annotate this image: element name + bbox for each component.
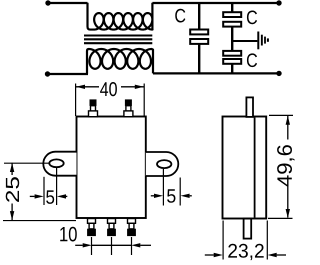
terminal pin top 2 bbox=[124, 99, 133, 116]
node line2 input terminal dot bbox=[45, 71, 50, 76]
dimension 25 line and arrows bbox=[11, 163, 13, 175]
dimension 5 left arrows bbox=[30, 195, 35, 197]
dimension 49,6 line and arrows bbox=[287, 116, 289, 140]
wire Y-capacitor top lead bbox=[231, 3, 233, 13]
wire earth lead from Y-cap midpoint bbox=[232, 40, 257, 42]
dimension 5 left extension lines bbox=[43, 177, 45, 205]
filter body outline (top view) bbox=[77, 117, 146, 219]
dimension 10 line and arrows bbox=[75, 244, 83, 246]
node line1 input terminal dot bbox=[45, 0, 50, 5]
terminal pin bottom 1 bbox=[87, 219, 96, 237]
node line2 output terminal dot bbox=[276, 71, 281, 76]
terminal pin top 1 bbox=[89, 99, 98, 116]
dimension label 25 (rotated) bbox=[6, 177, 20, 202]
dimension 10 extension lines at pins bbox=[91, 237, 93, 255]
dimension label 10 bbox=[60, 227, 77, 242]
wire between Y-capacitors bbox=[231, 27, 233, 52]
dimension label 40 bbox=[100, 82, 117, 96]
dimension 5 right extension lines bbox=[162, 169, 164, 206]
left mounting tab bbox=[43, 152, 76, 176]
terminal pin bottom 2 bbox=[107, 219, 116, 237]
ground chassis earth symbol bbox=[257, 32, 269, 50]
terminal pin bottom (side view) bbox=[244, 219, 252, 239]
wire X-capacitor bottom lead bbox=[198, 44, 200, 74]
wire line1 output bbox=[152, 2, 279, 4]
dimension 25 body bottom extension bbox=[3, 220, 76, 222]
capacitor C (X-cap across lines) bbox=[190, 30, 208, 44]
wire line2 input bbox=[48, 73, 89, 75]
label C of top Y-capacitor bbox=[247, 11, 257, 25]
filter body outline (side view) bbox=[223, 117, 267, 219]
wire line1 input bbox=[48, 2, 88, 4]
node line1 output terminal dot bbox=[276, 0, 281, 5]
dimension 49,6 extension lines bbox=[269, 114, 293, 116]
right mounting tab bbox=[146, 152, 179, 176]
dimension label 5 left bbox=[46, 190, 54, 204]
capacitor C (Y-cap line1 to earth) bbox=[223, 12, 241, 26]
capacitor C (Y-cap line2 to earth) bbox=[223, 51, 241, 64]
core of common-mode choke (3 lines) bbox=[84, 36, 152, 44]
wire bottom Y-capacitor lead bbox=[231, 64, 233, 74]
inductor L1 bottom winding of common-mode choke bbox=[87, 49, 153, 74]
right mounting hole (oval) bbox=[157, 160, 171, 168]
dimension 25 hole centerline extension bbox=[4, 162, 50, 164]
label C of bottom Y-capacitor bbox=[247, 53, 257, 67]
dimension 40 extension lines bbox=[75, 84, 77, 117]
dimension 40 line and arrows bbox=[76, 86, 99, 88]
label C of X-capacitor bbox=[175, 9, 185, 23]
dimension 5 right arrows bbox=[151, 195, 154, 197]
dimension label 5 right bbox=[167, 189, 175, 203]
terminal pin top (side view) bbox=[246, 97, 253, 117]
mounting flange line (side view) bbox=[254, 118, 256, 218]
terminal pin bottom 3 bbox=[127, 219, 136, 237]
left mounting hole (oval) bbox=[49, 159, 63, 167]
wire line2 output bbox=[153, 72, 279, 74]
wire X-capacitor top lead bbox=[198, 3, 200, 30]
dimension label 23,2 bbox=[228, 244, 263, 260]
dimension 23,2 arrows bbox=[205, 254, 214, 256]
dimension label 49,6 (rotated) bbox=[277, 145, 294, 186]
dimension 23,2 extension lines bbox=[222, 221, 224, 260]
inductor L1 top winding of common-mode choke bbox=[88, 3, 153, 30]
